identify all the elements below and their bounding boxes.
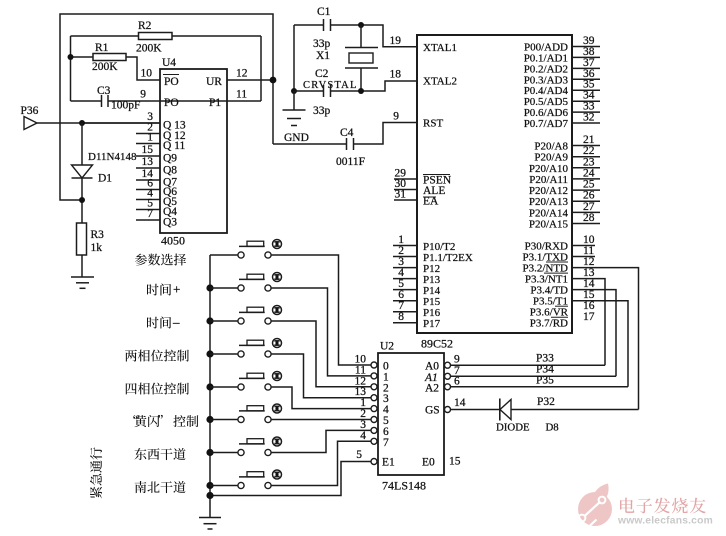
svg-text:14: 14 [454, 397, 466, 409]
svg-text:+: + [173, 282, 180, 297]
svg-text:R2: R2 [138, 20, 152, 32]
svg-text:Q3: Q3 [163, 217, 177, 229]
svg-text:31: 31 [395, 189, 407, 201]
svg-text:33p: 33p [313, 38, 331, 50]
svg-text:Q8: Q8 [163, 165, 177, 177]
svg-text:E1: E1 [382, 457, 395, 469]
svg-text:0011F: 0011F [336, 156, 365, 168]
svg-text:U4: U4 [162, 57, 176, 69]
svg-text:P20/A15: P20/A15 [529, 219, 569, 231]
svg-text:24: 24 [583, 167, 595, 179]
svg-text:D11N4148: D11N4148 [88, 151, 137, 163]
svg-text:DIODE: DIODE [496, 422, 530, 434]
svg-text:XTAL1: XTAL1 [423, 42, 457, 54]
svg-text:P20/A8: P20/A8 [534, 141, 568, 153]
svg-text:15: 15 [449, 456, 461, 468]
svg-text:200K: 200K [136, 43, 162, 55]
svg-text:P32: P32 [537, 396, 555, 408]
svg-text:33p: 33p [313, 105, 331, 117]
svg-text:26: 26 [583, 190, 595, 202]
svg-text:74LS148: 74LS148 [382, 479, 426, 493]
svg-text:18: 18 [390, 69, 402, 81]
svg-text:R1: R1 [95, 42, 109, 54]
svg-text:C2: C2 [315, 68, 329, 80]
svg-text:P3.7/RD: P3.7/RD [530, 318, 568, 330]
svg-text:www.elecfans.com: www.elecfans.com [617, 516, 713, 527]
svg-text:UR: UR [206, 76, 222, 88]
svg-text:P20/A11: P20/A11 [529, 174, 568, 186]
svg-text:8: 8 [398, 311, 404, 323]
svg-text:6: 6 [454, 375, 460, 387]
svg-text:R3: R3 [91, 229, 105, 241]
svg-text:RST: RST [423, 118, 443, 130]
svg-text:P20/A13: P20/A13 [529, 196, 569, 208]
svg-text:1k: 1k [91, 242, 103, 254]
svg-text:9: 9 [140, 89, 146, 101]
svg-text:P0.7/AD7: P0.7/AD7 [524, 118, 569, 130]
svg-text:21: 21 [583, 134, 595, 146]
svg-text:PO: PO [164, 76, 179, 88]
svg-text:C3: C3 [97, 85, 111, 97]
svg-text:28: 28 [583, 212, 595, 224]
svg-text:PO: PO [164, 97, 179, 109]
svg-text:GND: GND [284, 132, 309, 144]
svg-text:E0: E0 [422, 457, 435, 469]
svg-text:4050: 4050 [161, 234, 185, 248]
svg-text:89C52: 89C52 [421, 337, 453, 351]
svg-text:C1: C1 [317, 6, 331, 18]
svg-text:–: – [172, 315, 180, 330]
svg-text:X1: X1 [316, 50, 330, 62]
svg-text:15: 15 [142, 144, 154, 156]
svg-text:4: 4 [360, 430, 366, 442]
svg-text:17: 17 [583, 311, 595, 323]
svg-text:D1: D1 [98, 173, 112, 185]
svg-text:7: 7 [383, 437, 389, 449]
svg-text:Q 11: Q 11 [163, 140, 186, 152]
svg-text:9: 9 [393, 111, 399, 123]
svg-text:200K: 200K [92, 61, 118, 73]
svg-text:XTAL2: XTAL2 [423, 76, 457, 88]
svg-text:19: 19 [390, 35, 402, 47]
svg-text:D8: D8 [546, 422, 559, 434]
svg-text:10: 10 [141, 68, 153, 80]
svg-text:P36: P36 [21, 105, 39, 117]
svg-text:GS: GS [425, 405, 440, 417]
svg-text:32: 32 [583, 112, 595, 124]
svg-text:13: 13 [142, 156, 154, 168]
svg-text:100pF: 100pF [111, 100, 140, 112]
svg-text:P35: P35 [536, 374, 554, 386]
svg-text:A2: A2 [425, 382, 439, 394]
svg-text:5: 5 [356, 449, 362, 461]
svg-text:U2: U2 [380, 341, 394, 353]
svg-text:P17: P17 [423, 318, 441, 330]
svg-text:11: 11 [236, 89, 247, 101]
svg-text:C4: C4 [340, 127, 354, 139]
svg-text:P1: P1 [209, 97, 221, 109]
svg-text:1: 1 [147, 132, 153, 144]
svg-text:12: 12 [236, 68, 248, 80]
svg-text:Q9: Q9 [163, 153, 177, 165]
svg-text:7: 7 [147, 208, 153, 220]
